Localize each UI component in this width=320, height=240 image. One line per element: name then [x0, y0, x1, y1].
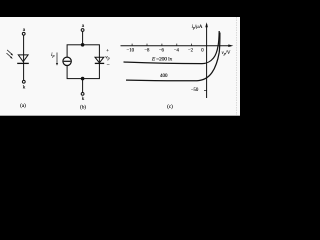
svg-text:(a): (a): [20, 102, 26, 109]
svg-text:k: k: [82, 96, 85, 102]
svg-text:−: −: [106, 63, 109, 69]
svg-text:−6: −6: [159, 48, 165, 53]
svg-text:−50: −50: [191, 88, 199, 93]
svg-text:−4: −4: [174, 48, 180, 53]
svg-text:vp: vp: [105, 55, 109, 61]
svg-text:k: k: [23, 85, 26, 91]
svg-text:ip: ip: [51, 52, 55, 58]
svg-text:−10: −10: [127, 48, 135, 53]
svg-text:+: +: [106, 48, 109, 54]
svg-text:400: 400: [160, 74, 168, 79]
svg-text:vp/V: vp/V: [221, 51, 230, 56]
svg-text:ip/μA: ip/μA: [192, 25, 203, 30]
svg-text:(b): (b): [80, 104, 86, 111]
svg-text:−8: −8: [144, 48, 150, 53]
svg-text:−2: −2: [188, 48, 194, 53]
svg-text:E =200 lx: E =200 lx: [151, 56, 173, 62]
svg-text:(c): (c): [167, 103, 173, 110]
